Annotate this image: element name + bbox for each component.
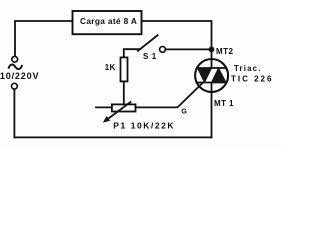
- wire 1K resistor top to switch S1: [124, 49, 139, 57]
- wire resistor bottom to potentiometer: [123, 81, 125, 104]
- svg-text:P1 10K/22K: P1 10K/22K: [113, 121, 175, 131]
- potentiometer arrowhead: [103, 116, 110, 123]
- triac top bar: [197, 67, 226, 69]
- AC tilde symbol: [9, 65, 22, 70]
- resistor R1 1K body: [121, 57, 128, 81]
- svg-text:110/220V: 110/220V: [0, 71, 39, 81]
- triac U1 TIC226 body circle: [195, 59, 228, 92]
- wire stub potentiometer left: [96, 106, 112, 108]
- wire MT2 node to triac MT2: [211, 49, 213, 68]
- svg-text:G: G: [181, 107, 187, 116]
- svg-text:TIC 226: TIC 226: [231, 74, 273, 83]
- load box "Carga até 8 A": [73, 11, 142, 34]
- svg-text:MT2: MT2: [216, 47, 234, 56]
- node MT2 junction dot: [209, 47, 215, 53]
- wire bottom-left up to lower terminal: [13, 89, 15, 137]
- svg-text:Carga até 8 A: Carga até 8 A: [80, 16, 137, 26]
- wire potentiometer right to triac gate G: [136, 83, 203, 107]
- wire triac MT1 down to bottom rail: [211, 83, 213, 138]
- svg-text:1K: 1K: [105, 63, 116, 72]
- switch S1 contact circle: [160, 47, 166, 53]
- triac left triangle (points down): [198, 68, 212, 83]
- switch S1 lever: [138, 35, 158, 51]
- terminal circle upper: [12, 56, 18, 62]
- wire load box to top-right corner down to MT2 node: [142, 21, 212, 49]
- triac bottom bar: [197, 82, 226, 84]
- svg-text:Triac.: Triac.: [234, 64, 262, 73]
- potentiometer wiper arrow line: [108, 102, 131, 119]
- terminal circle lower: [12, 83, 18, 89]
- wire switch to MT2 node: [165, 48, 211, 50]
- svg-text:S 1: S 1: [143, 52, 157, 61]
- svg-text:MT 1: MT 1: [214, 99, 234, 108]
- potentiometer P1 body: [112, 104, 136, 111]
- wire bottom rail: [14, 136, 211, 138]
- triac right triangle (points up): [212, 68, 227, 83]
- wire top-left: upper terminal to load box: [15, 21, 73, 56]
